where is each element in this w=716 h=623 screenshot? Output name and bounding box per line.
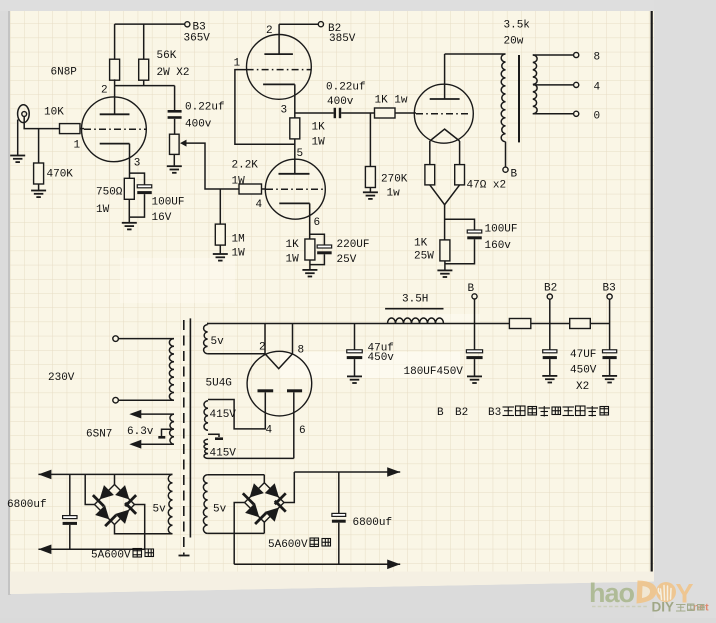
capacitor 47UF 450V (B3) xyxy=(603,350,617,353)
wire pin8 to rail xyxy=(292,324,294,354)
svg-text:2: 2 xyxy=(259,342,266,354)
svg-text:270K: 270K xyxy=(381,174,408,186)
svg-text:5A600V: 5A600V xyxy=(91,550,131,562)
terminal B (OPT) xyxy=(503,167,508,172)
capacitor 100UF 16V xyxy=(137,185,152,188)
svg-text:5v: 5v xyxy=(213,504,227,516)
wire pot wiper to V2 lower grid xyxy=(187,143,240,189)
wire bridge2 left corner down xyxy=(234,503,244,565)
svg-text:DIY: DIY xyxy=(652,600,675,615)
resistor 47ohm left xyxy=(425,165,435,185)
svg-text:3.5k: 3.5k xyxy=(504,20,531,32)
haoDIY watermark logo xyxy=(589,578,709,615)
terminal 0 xyxy=(574,111,579,116)
V4 plate pin 4 xyxy=(258,389,274,392)
bridge rectifier 1 5A600V xyxy=(95,485,135,525)
resistor 1K 1W (SRPP) xyxy=(290,118,300,139)
ground under pot xyxy=(167,165,182,167)
wire cap bottom join xyxy=(445,239,475,263)
ground under 180UF xyxy=(467,375,482,377)
6.3v heater winding xyxy=(170,414,174,444)
svg-text:1K: 1K xyxy=(414,238,428,250)
wire 1M to ground xyxy=(219,245,221,254)
wire cathode to cap 220UF xyxy=(310,234,325,245)
tube V1 6N8P first triode xyxy=(82,97,147,162)
resistor 270K 1w xyxy=(365,167,375,188)
wire to cap 100UF 160v xyxy=(445,219,475,230)
svg-text:5A600V: 5A600V xyxy=(268,539,308,551)
wire 5v bottom to pin 2 xyxy=(208,353,265,355)
resistor 47ohm right xyxy=(455,165,465,185)
PT core solid xyxy=(189,318,191,537)
wire bridge1 top DC xyxy=(38,473,172,475)
svg-text:B: B xyxy=(437,407,444,419)
wire 2.2K to V2 lower grid xyxy=(262,188,267,190)
svg-text:3: 3 xyxy=(281,105,288,117)
OPT primary winding xyxy=(501,54,505,142)
svg-text:4: 4 xyxy=(256,199,263,211)
wire tap 0 xyxy=(533,113,574,115)
wire B2 drop xyxy=(549,299,551,350)
V1 plate (pin 2) xyxy=(100,113,130,115)
svg-text:4: 4 xyxy=(594,82,601,94)
svg-text:6.3v: 6.3v xyxy=(127,426,154,438)
logo dashed rule xyxy=(592,606,649,608)
wire jack to R 10K xyxy=(24,116,59,128)
resistor 1K 25W xyxy=(440,240,450,261)
svg-text:B3: B3 xyxy=(488,407,501,419)
wire 230V top xyxy=(118,338,174,340)
node 270K junction xyxy=(369,113,371,167)
wire bridge2 bottom stub xyxy=(263,522,265,533)
wire cap to potentiometer xyxy=(174,119,176,134)
ground under 270K xyxy=(363,191,378,193)
svg-text:56K: 56K xyxy=(157,50,177,62)
wire bridge2 top DC xyxy=(294,471,400,473)
wire 10K to V1 grid xyxy=(80,128,84,130)
wire B3 drop xyxy=(609,299,611,350)
wire tap 8 xyxy=(533,54,574,56)
tube V2 lower triode xyxy=(265,159,325,219)
wire pin4 to 415V top xyxy=(208,392,265,429)
svg-text:25V: 25V xyxy=(337,254,357,266)
svg-text:6SN7: 6SN7 xyxy=(86,429,112,441)
resistor 1K 1W cathode xyxy=(305,239,315,260)
svg-text:B: B xyxy=(511,169,518,181)
resistor 1K 1w grid stopper xyxy=(375,108,396,118)
svg-text:4: 4 xyxy=(266,425,273,437)
svg-text:1: 1 xyxy=(74,140,81,152)
ground under 1M xyxy=(213,253,228,255)
capacitor 220UF 25V xyxy=(317,245,332,248)
wire bridge1 bottom corner xyxy=(115,525,173,534)
svg-text:1W: 1W xyxy=(312,137,326,149)
svg-text:47UF: 47UF xyxy=(570,349,596,361)
logo D xyxy=(637,581,657,604)
svg-text:X2: X2 xyxy=(576,381,589,393)
logo O with hand xyxy=(656,582,676,602)
wire to output tube grid xyxy=(395,112,416,114)
node 1M junction xyxy=(219,189,221,224)
V1 grid (pin 1) xyxy=(84,128,146,130)
capacitor 100UF 160v xyxy=(467,230,482,233)
V3 plate xyxy=(430,98,460,100)
svg-text:1W: 1W xyxy=(286,254,300,266)
svg-text:400v: 400v xyxy=(327,96,354,108)
wire 56K bottoms to plate node xyxy=(114,79,116,85)
ground under 1K xyxy=(302,269,317,271)
tube V3 output xyxy=(414,84,473,143)
terminal 230V bottom xyxy=(113,397,119,403)
capacitor 0.22uf 400v (stage 1 coupling) xyxy=(168,110,182,113)
OPT secondary winding xyxy=(533,55,537,114)
paper bottom margin xyxy=(10,572,654,595)
capacitor 6800uf (bridge1) xyxy=(69,474,71,515)
capacitor 47uf 450v xyxy=(354,324,356,350)
415V winding lower xyxy=(204,439,208,458)
svg-text:3.5H: 3.5H xyxy=(402,294,428,306)
PT primary 230V winding xyxy=(169,339,174,401)
resistor rail R (B2-B3) xyxy=(570,319,591,329)
resistor 1M 1W xyxy=(215,224,225,245)
svg-text:1W: 1W xyxy=(232,176,246,188)
svg-text:1W: 1W xyxy=(96,204,110,216)
svg-text:1W: 1W xyxy=(232,248,246,260)
resistor rail R (B-B2) xyxy=(509,319,530,329)
svg-text:47Ω x2: 47Ω x2 xyxy=(467,180,507,192)
svg-text:160v: 160v xyxy=(485,240,512,252)
svg-text:0.22uf: 0.22uf xyxy=(326,82,366,94)
ground jack xyxy=(10,155,25,157)
svg-text:2.2K: 2.2K xyxy=(232,160,259,172)
resistor 10K xyxy=(60,124,81,134)
svg-text:5U4G: 5U4G xyxy=(206,378,232,390)
svg-text:5v: 5v xyxy=(153,504,167,516)
wire 270K to ground xyxy=(369,188,371,193)
svg-text:2: 2 xyxy=(266,25,273,37)
svg-text:2W X2: 2W X2 xyxy=(157,67,190,79)
wire primary to terminal B xyxy=(505,142,507,167)
wire plate to OPT primary xyxy=(445,53,506,55)
capacitor 180UF450V xyxy=(466,350,482,353)
PT core dashed xyxy=(183,320,185,555)
V2u cathode (pin 3) xyxy=(263,83,295,85)
svg-text:6N8P: 6N8P xyxy=(51,67,78,79)
wire 220UF bottom join xyxy=(310,254,325,264)
svg-text:1M: 1M xyxy=(232,234,245,246)
svg-text:230V: 230V xyxy=(48,372,75,384)
V2l plate (pin 5) xyxy=(279,173,310,175)
wire 6.3v top with arrow xyxy=(136,413,174,415)
svg-text:1K 1w: 1K 1w xyxy=(375,95,408,107)
wire pin6 to 415V bottom xyxy=(208,457,294,459)
V2u grid (pin 1) + wire to lower plate xyxy=(247,69,312,71)
white correction patches xyxy=(280,352,460,378)
wire 1K bottom to V2 lower plate xyxy=(294,139,296,174)
V4 filament V xyxy=(265,354,293,369)
svg-text:1: 1 xyxy=(234,58,241,70)
415V center tap xyxy=(208,434,219,437)
wire bridge2 winding bottom xyxy=(208,532,265,534)
svg-text:6: 6 xyxy=(299,425,306,437)
5v rectifier winding xyxy=(204,325,208,354)
V3 filament cathode xyxy=(430,129,460,141)
svg-text:0: 0 xyxy=(594,111,601,123)
wire B drop xyxy=(474,299,476,350)
wire cap2 to grid stopper xyxy=(341,112,374,114)
wire bridge2 right corner up xyxy=(284,472,294,503)
V3 grid xyxy=(416,113,471,115)
wire 470K to ground xyxy=(38,184,40,191)
wire main B+ rail xyxy=(207,323,610,325)
svg-text:450V: 450V xyxy=(570,365,597,377)
wire jack shell to ground xyxy=(17,120,19,156)
terminal B3 xyxy=(185,22,190,27)
wire pot to ground xyxy=(173,154,175,166)
svg-text:180UF450V: 180UF450V xyxy=(404,366,464,378)
svg-text:16V: 16V xyxy=(152,212,172,224)
wire pin2 to rail xyxy=(264,324,266,354)
svg-text:B2: B2 xyxy=(544,283,557,295)
wire bridge1 top stub xyxy=(114,474,116,484)
wire plate to B2 xyxy=(279,23,318,25)
svg-text:6: 6 xyxy=(314,217,321,229)
tube V2 upper triode xyxy=(247,35,312,100)
wire bridge2 bottom DC xyxy=(234,563,400,565)
svg-text:415V: 415V xyxy=(210,409,237,421)
ground under 750ohm xyxy=(122,222,137,224)
wire 5v top to rail xyxy=(207,324,209,325)
resistor 56K left xyxy=(110,59,120,80)
wire 56K tops to B3 xyxy=(114,24,116,59)
resistor 2.2K 1W xyxy=(239,184,262,194)
capacitor 47UF 450V (B2) xyxy=(543,350,557,353)
input jack J1 xyxy=(18,105,30,123)
tube V4 5U4G xyxy=(247,351,312,416)
svg-text:0.22uf: 0.22uf xyxy=(185,102,225,114)
wire bridge1 left corner xyxy=(85,474,94,504)
wire tap 4 xyxy=(533,84,574,86)
bridge rectifier 2 5A600V xyxy=(245,483,284,522)
svg-text:B2: B2 xyxy=(455,407,468,419)
terminal B2 xyxy=(318,22,323,27)
svg-text:5: 5 xyxy=(297,148,304,160)
svg-text:20w: 20w xyxy=(504,36,524,48)
resistor 750ohm 1W xyxy=(124,178,134,199)
potentiometer volume xyxy=(170,134,180,154)
svg-text:6800uf: 6800uf xyxy=(353,517,393,529)
svg-text:470K: 470K xyxy=(47,169,74,181)
svg-text:B: B xyxy=(468,283,475,295)
terminal 4 xyxy=(574,82,579,87)
5v winding (bridge 1) xyxy=(168,474,172,533)
V2u plate (pin 2) xyxy=(264,53,293,55)
svg-text:10K: 10K xyxy=(44,107,64,119)
svg-text:8: 8 xyxy=(594,52,601,64)
svg-text:100UF: 100UF xyxy=(485,224,518,236)
svg-text:6800uf: 6800uf xyxy=(7,499,47,511)
resistor 470K xyxy=(34,163,44,184)
svg-text:1K: 1K xyxy=(286,239,300,251)
V4 plate pin 6 xyxy=(287,389,302,392)
ground under B3 cap xyxy=(602,375,617,377)
svg-text:5v: 5v xyxy=(211,336,225,348)
svg-text:2: 2 xyxy=(101,85,108,97)
ground output stage xyxy=(437,269,452,271)
svg-text:220UF: 220UF xyxy=(337,239,370,251)
svg-text:1K: 1K xyxy=(312,122,326,134)
5v winding (bridge 2) xyxy=(203,475,207,534)
wire cathode node down xyxy=(444,205,446,240)
V2l grid (pin 4) xyxy=(266,188,325,190)
wire cap bottom to resistor bottom xyxy=(129,194,144,217)
node junction 470K xyxy=(38,129,40,163)
svg-text:100UF: 100UF xyxy=(152,197,185,209)
svg-text:750Ω: 750Ω xyxy=(96,187,123,199)
resistor 56K right xyxy=(139,59,149,80)
svg-text:3: 3 xyxy=(134,158,141,170)
wire bridge2 winding top xyxy=(208,474,265,476)
terminal 230V top xyxy=(113,336,119,342)
wire bridge2 top stub xyxy=(263,475,265,483)
svg-text:400v: 400v xyxy=(185,119,212,131)
ground under 470K xyxy=(31,190,46,192)
ground under 47uf xyxy=(347,375,362,377)
wire plate node to coupling cap xyxy=(174,86,176,110)
svg-text:8: 8 xyxy=(298,345,305,357)
svg-text:385V: 385V xyxy=(329,33,356,45)
wire bridge1 right corner xyxy=(135,505,145,550)
6.3v center tap xyxy=(162,429,172,436)
svg-text:hao: hao xyxy=(589,578,635,608)
V2l cathode (pin 6) xyxy=(279,202,309,204)
sheet right border line xyxy=(651,11,653,572)
terminal 8 xyxy=(574,52,579,57)
wire SRPP output to coupling cap 2 xyxy=(295,112,334,114)
svg-text:1w: 1w xyxy=(387,188,401,200)
OPT core xyxy=(518,55,520,142)
svg-text:450v: 450v xyxy=(368,352,395,364)
wire cathode to cap 100UF xyxy=(130,173,145,185)
ground under B2 cap xyxy=(542,375,557,377)
wire bridge1 bottom DC xyxy=(38,548,144,550)
capacitor 0.22uf 400v (stage 2 coupling) xyxy=(334,108,336,118)
wire 47ohm join V xyxy=(430,185,460,205)
V1 cathode (pin 3) xyxy=(100,143,130,145)
svg-text:B3: B3 xyxy=(603,283,616,295)
capacitor 6800uf (bridge2) xyxy=(338,472,340,513)
svg-text:25W: 25W xyxy=(414,251,434,263)
wire 6.3v bottom with arrow xyxy=(136,443,174,445)
wire 230V bottom xyxy=(118,399,174,401)
svg-text:365V: 365V xyxy=(184,33,211,45)
415V winding upper xyxy=(204,401,208,431)
